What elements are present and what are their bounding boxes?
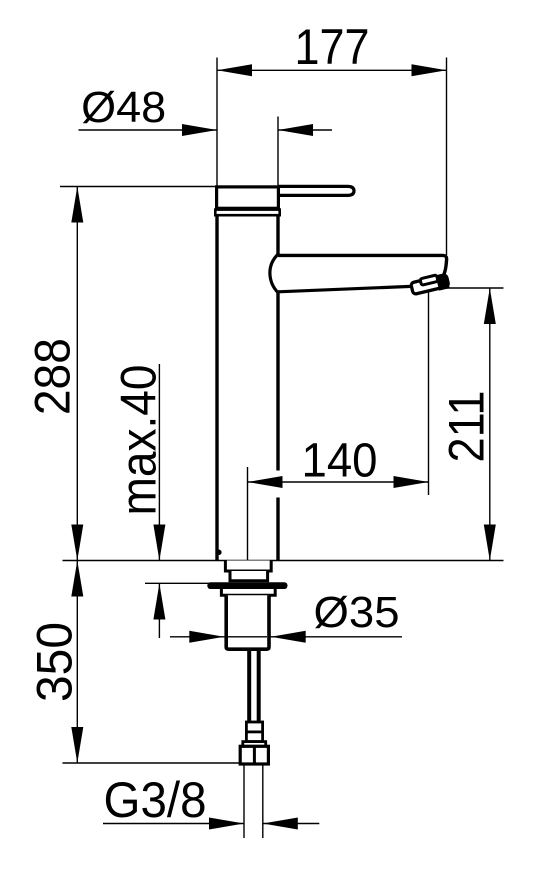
dim line max.40 lower [158,584,160,639]
arrow max.40 lower (points up, tip at flange line) [153,584,165,620]
dim line Ø48 left segment [79,129,218,131]
spout root arc [270,254,278,292]
svg-text:G3/8: G3/8 [104,772,207,828]
arrow 140 left (points left) [248,476,283,488]
extension line bottom of 350 [63,762,241,764]
arrow 177 left [217,64,252,76]
arrow 211 bottom (points down) [484,525,496,561]
extension line left of 177 and Ø48 [216,58,218,187]
threaded shank [226,595,269,649]
dim line max.40 upper [158,364,160,561]
body right edge lower [276,498,279,561]
dim line Ø35 [170,636,402,638]
arrow G3/8 right (points left) [263,818,298,830]
extension line Ø48 right [277,117,279,187]
body right edge upper [276,215,279,254]
handle lever [278,186,354,195]
arrow 140 right (points right) [394,476,429,488]
dim line G3/8 left segment [103,823,244,825]
extension line max.40 at flange [145,582,210,584]
arrow 350 bottom (points down) [71,727,83,763]
nut center line [253,746,256,764]
arrow 288 top (points up) [71,187,83,223]
arrow Ø35 right (points left) [271,631,306,643]
supply pipe right wall [257,651,261,722]
arrow 177 right [412,64,447,76]
connection pipe right line [262,764,264,838]
adapter upper [246,722,262,732]
supply pipe left wall [247,651,251,722]
body right edge middle [276,293,279,471]
aerator ring [420,275,438,285]
svg-text:Ø35: Ø35 [314,588,400,637]
arrow Ø48 right (points left) [278,124,313,136]
extension line 140 right (aerator axis) [428,290,430,496]
svg-text:211: 211 [439,391,495,463]
dim line Ø48 right segment [278,129,332,131]
mounting surface line [63,560,504,562]
arrow 211 top (points up) [484,288,496,324]
extension line top of 288 [60,186,217,188]
arrow 288 bottom (points down) [71,525,83,561]
flange [207,582,287,589]
arrow G3/8 left (points right) [209,818,244,830]
set screw dot [216,550,222,556]
arrow max.40 upper (points down, tip at mounting line) [153,525,165,561]
svg-text:288: 288 [25,338,81,415]
dim line G3/8 right segment [263,823,320,825]
dim line 177 [217,69,447,71]
extension line top of 211 (aerator bottom) [430,287,504,289]
handle cap [217,187,279,208]
dim line 288 [76,187,78,561]
spout bottom edge [278,286,411,291]
Ø35 dim line inside shank [228,636,267,638]
extension line right of 177 [446,58,448,256]
body left edge [215,215,218,560]
spout top edge [278,255,447,276]
adapter neck [243,742,266,747]
svg-text:140: 140 [302,435,378,488]
svg-text:max.40: max.40 [111,365,167,516]
arrow Ø48 left (points right) [182,124,217,136]
aerator end cap [436,276,450,291]
dim line 211 [489,288,491,561]
dim line 140 [248,481,429,483]
sub-flange [221,589,275,595]
adapter middle [246,732,262,742]
dim line 350 [76,561,78,764]
svg-text:Ø48: Ø48 [81,83,166,132]
collar ring [215,210,279,216]
arrow Ø35 left (points right) [189,631,224,643]
base step 1 [225,561,271,572]
svg-text:177: 177 [295,19,370,75]
aerator housing [411,275,449,295]
base step 2 [230,571,268,581]
connection pipe left line [243,764,245,838]
extension line 140 left (body axis) [247,467,249,561]
compression nut [240,746,268,764]
arrow 350 top (points up) [71,561,83,597]
svg-text:350: 350 [27,622,83,702]
